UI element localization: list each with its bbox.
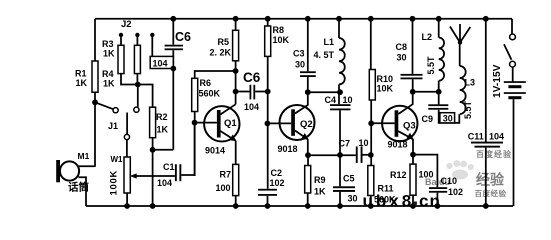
- svg-text:10K: 10K: [377, 84, 394, 94]
- svg-text:ubx8: ubx8: [363, 192, 415, 211]
- svg-text:4. 5T: 4. 5T: [314, 50, 335, 60]
- svg-text:C8: C8: [396, 42, 408, 52]
- svg-text:C9: C9: [422, 114, 434, 124]
- svg-text:J1: J1: [108, 121, 118, 131]
- svg-text:R2: R2: [156, 112, 168, 122]
- svg-text:cn: cn: [419, 192, 441, 211]
- svg-text:C4: C4: [325, 95, 337, 105]
- svg-text:J2: J2: [121, 19, 132, 30]
- svg-text:R12: R12: [390, 170, 407, 180]
- svg-text:100K: 100K: [109, 170, 120, 196]
- svg-text:102: 102: [270, 178, 285, 188]
- svg-text:经验: 经验: [476, 172, 505, 188]
- svg-text:L3: L3: [465, 78, 476, 88]
- svg-text:104: 104: [489, 132, 504, 142]
- svg-text:Q3: Q3: [403, 121, 416, 132]
- svg-text:R5: R5: [218, 37, 230, 47]
- svg-text:R9: R9: [314, 175, 326, 185]
- svg-text:C6: C6: [243, 70, 261, 85]
- svg-text:1V-15V: 1V-15V: [492, 64, 503, 98]
- svg-text:104: 104: [244, 102, 259, 112]
- svg-text:C5: C5: [343, 174, 355, 184]
- svg-text:10: 10: [359, 138, 369, 148]
- svg-text:1K: 1K: [314, 187, 326, 197]
- svg-text:C1: C1: [163, 162, 175, 172]
- svg-text:W1: W1: [111, 155, 124, 164]
- svg-text:M1: M1: [78, 151, 90, 161]
- svg-text:10K: 10K: [273, 35, 290, 45]
- svg-text:C7: C7: [339, 139, 351, 149]
- svg-text:C11: C11: [468, 132, 484, 142]
- svg-text:百度经验: 百度经验: [475, 188, 507, 198]
- svg-text:10: 10: [343, 95, 353, 105]
- svg-text:C10: C10: [441, 176, 458, 186]
- svg-text:R7: R7: [220, 170, 232, 180]
- svg-text:2. 2K: 2. 2K: [210, 48, 232, 58]
- svg-text:9018: 9018: [278, 144, 298, 154]
- svg-text:R4: R4: [102, 69, 114, 79]
- svg-text:30: 30: [295, 60, 305, 70]
- svg-text:100: 100: [216, 183, 231, 193]
- svg-text:1K: 1K: [103, 79, 115, 89]
- svg-text:Q2: Q2: [300, 119, 313, 130]
- svg-text:C6: C6: [175, 30, 191, 44]
- svg-text:104: 104: [153, 59, 168, 69]
- svg-text:R10: R10: [377, 74, 394, 84]
- svg-text:100: 100: [419, 170, 434, 180]
- svg-text:30: 30: [348, 194, 358, 204]
- svg-text:L2: L2: [422, 32, 433, 42]
- svg-text:百度经验: 百度经验: [476, 149, 512, 159]
- svg-text:9018: 9018: [388, 140, 408, 150]
- svg-text:1K: 1K: [157, 125, 169, 135]
- svg-text:102: 102: [448, 187, 463, 197]
- svg-text:R3: R3: [102, 39, 114, 49]
- svg-text:L1: L1: [324, 37, 335, 47]
- svg-text:9014: 9014: [205, 146, 225, 156]
- svg-text:R6: R6: [200, 78, 212, 88]
- svg-text:话筒: 话筒: [68, 181, 89, 194]
- svg-text:5.5T: 5.5T: [426, 56, 436, 75]
- svg-text:R8: R8: [273, 25, 285, 35]
- svg-text:Q1: Q1: [224, 118, 237, 129]
- svg-text:30: 30: [397, 53, 407, 63]
- svg-text:560K: 560K: [199, 89, 221, 99]
- svg-text:R1: R1: [75, 69, 87, 79]
- svg-text:5.5T: 5.5T: [463, 100, 473, 119]
- svg-text:104: 104: [157, 178, 172, 188]
- svg-text:1K: 1K: [103, 49, 115, 59]
- svg-text:C2: C2: [271, 168, 283, 178]
- svg-text:1K: 1K: [76, 78, 88, 88]
- svg-text:30: 30: [443, 114, 453, 124]
- svg-text:C3: C3: [293, 49, 305, 59]
